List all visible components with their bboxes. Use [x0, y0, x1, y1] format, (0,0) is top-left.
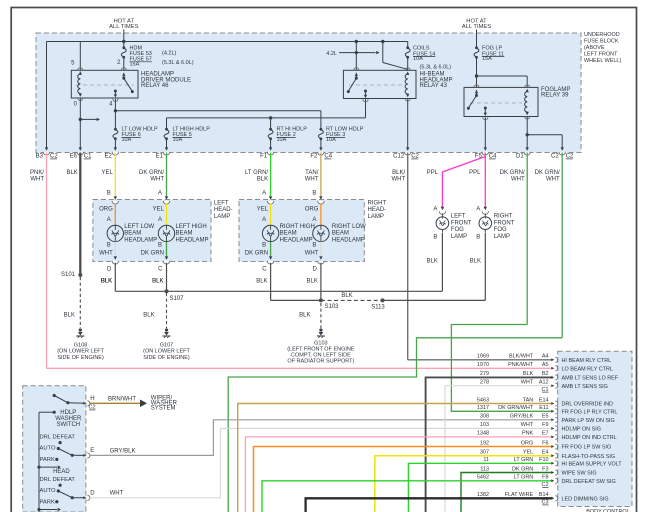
svg-text:A: A — [262, 217, 266, 223]
svg-text:C2: C2 — [551, 154, 559, 160]
svg-text:PNK: PNK — [522, 431, 534, 437]
svg-text:E1: E1 — [156, 154, 164, 160]
svg-text:RELAY 46: RELAY 46 — [141, 83, 169, 89]
svg-text:SIDE OF ENGINE): SIDE OF ENGINE) — [57, 355, 104, 361]
svg-text:10A: 10A — [326, 137, 336, 143]
svg-text:C: C — [158, 266, 163, 272]
svg-text:BLK: BLK — [143, 312, 154, 318]
svg-text:F5: F5 — [475, 154, 483, 160]
svg-text:DK GRN/: DK GRN/ — [500, 170, 525, 176]
svg-text:BLK: BLK — [64, 312, 75, 318]
svg-text:(ON LOWER LEFT: (ON LOWER LEFT — [143, 349, 190, 355]
svg-text:1970: 1970 — [477, 362, 489, 368]
svg-text:RIGHT HIGH: RIGHT HIGH — [280, 224, 315, 230]
svg-text:A: A — [312, 217, 316, 223]
svg-text:G107: G107 — [160, 342, 173, 348]
svg-text:E11: E11 — [539, 405, 548, 411]
svg-text:SWITCH: SWITCH — [56, 422, 80, 428]
svg-text:HI BEAM RLY CTRL: HI BEAM RLY CTRL — [562, 358, 612, 364]
svg-text:BLK: BLK — [257, 177, 268, 183]
svg-text:E7: E7 — [542, 431, 549, 437]
svg-text:B: B — [158, 243, 162, 249]
svg-text:A: A — [433, 206, 437, 212]
svg-text:ALL TIMES: ALL TIMES — [462, 24, 491, 30]
svg-text:PNK/WHT: PNK/WHT — [508, 362, 534, 368]
svg-text:5463: 5463 — [477, 397, 489, 403]
svg-text:LO BEAM RLY CTRL: LO BEAM RLY CTRL — [562, 367, 613, 373]
svg-text:D: D — [313, 266, 318, 272]
svg-text:COMPT, ON LEFT SIDE: COMPT, ON LEFT SIDE — [291, 353, 351, 359]
svg-text:E: E — [90, 448, 94, 454]
svg-text:BLK/: BLK/ — [392, 170, 405, 176]
svg-text:AUTO: AUTO — [40, 488, 56, 494]
svg-text:PARK: PARK — [40, 500, 55, 506]
svg-text:FR FOG LP RLY CTRL: FR FOG LP RLY CTRL — [562, 410, 618, 416]
svg-text:F3: F3 — [542, 466, 548, 472]
svg-text:LEFT: LEFT — [451, 214, 466, 220]
svg-text:F10: F10 — [539, 457, 548, 463]
svg-text:E6: E6 — [69, 154, 77, 160]
svg-text:PPL: PPL — [427, 170, 439, 176]
svg-text:11: 11 — [483, 457, 489, 463]
svg-text:F1: F1 — [260, 154, 268, 160]
svg-text:HEADLAMP: HEADLAMP — [124, 237, 157, 243]
svg-text:15A: 15A — [130, 61, 140, 67]
svg-text:AMB LT SENS LO REF: AMB LT SENS LO REF — [562, 376, 619, 382]
svg-text:FLASH-TO-PASS SIG: FLASH-TO-PASS SIG — [562, 454, 616, 460]
svg-text:DK GRN: DK GRN — [245, 250, 268, 256]
svg-text:LED DIMMING SIG: LED DIMMING SIG — [562, 497, 609, 503]
svg-text:LT GRN/: LT GRN/ — [245, 170, 268, 176]
svg-text:TAN/: TAN/ — [305, 170, 319, 176]
svg-text:A: A — [158, 217, 162, 223]
svg-text:AMB LT SENS SIG: AMB LT SENS SIG — [562, 384, 608, 390]
svg-text:WIPE SW SIG: WIPE SW SIG — [562, 471, 597, 477]
svg-text:H: H — [90, 396, 94, 402]
svg-text:DK GRN/: DK GRN/ — [535, 170, 560, 176]
svg-text:BEAM: BEAM — [124, 231, 141, 237]
svg-text:(ON LOWER LEFT: (ON LOWER LEFT — [57, 349, 104, 355]
svg-text:PARK: PARK — [40, 457, 55, 463]
svg-text:4.2L: 4.2L — [326, 51, 337, 57]
svg-text:LEFT LOW: LEFT LOW — [124, 224, 154, 230]
svg-text:307: 307 — [480, 450, 489, 456]
svg-text:BEAM: BEAM — [176, 231, 193, 237]
svg-text:D: D — [90, 491, 95, 497]
svg-text:RELAY 43: RELAY 43 — [420, 83, 448, 89]
svg-text:G108: G108 — [74, 342, 87, 348]
svg-text:BLK: BLK — [307, 279, 318, 285]
svg-text:HI BEAM SUPPLY VOLT: HI BEAM SUPPLY VOLT — [562, 462, 623, 468]
svg-text:AUTO: AUTO — [40, 446, 56, 452]
svg-text:E14: E14 — [539, 397, 549, 403]
svg-text:A: A — [262, 190, 266, 196]
svg-text:10A: 10A — [173, 137, 183, 143]
svg-text:BLK: BLK — [470, 258, 481, 264]
svg-text:G103: G103 — [314, 340, 327, 346]
svg-text:D: D — [107, 266, 112, 272]
svg-text:FLAT WIRE: FLAT WIRE — [505, 492, 534, 498]
svg-text:LEFT: LEFT — [214, 201, 229, 207]
svg-text:LAMP: LAMP — [451, 234, 467, 240]
svg-text:BLK/WHT: BLK/WHT — [509, 354, 534, 360]
svg-text:278: 278 — [480, 380, 489, 386]
svg-text:GRY/BLK: GRY/BLK — [510, 414, 534, 420]
svg-text:BLK: BLK — [299, 312, 310, 318]
svg-text:RELAY 39: RELAY 39 — [541, 93, 569, 99]
svg-text:1348: 1348 — [477, 431, 489, 437]
svg-text:192: 192 — [480, 440, 489, 446]
svg-text:DRL DEFEAT SW SIG: DRL DEFEAT SW SIG — [562, 479, 616, 485]
svg-text:PPL: PPL — [469, 170, 481, 176]
svg-text:DK GRN: DK GRN — [512, 466, 533, 472]
svg-text:1317: 1317 — [477, 405, 489, 411]
svg-text:WHT: WHT — [521, 422, 534, 428]
svg-text:HEADLAMP: HEADLAMP — [332, 237, 365, 243]
svg-text:SYSTEM: SYSTEM — [151, 406, 176, 412]
svg-text:HEAD-: HEAD- — [214, 207, 233, 213]
svg-text:WHT: WHT — [511, 177, 525, 183]
svg-text:A4: A4 — [542, 354, 549, 360]
svg-text:BEAM: BEAM — [332, 231, 349, 237]
svg-text:WHT: WHT — [521, 380, 534, 386]
svg-text:C12: C12 — [393, 154, 405, 160]
svg-text:S101: S101 — [61, 272, 76, 278]
svg-text:FR FOG LP SW SIG: FR FOG LP SW SIG — [562, 445, 612, 451]
svg-text:DK GRN/WHT: DK GRN/WHT — [498, 405, 534, 411]
svg-text:BEAM: BEAM — [280, 231, 297, 237]
svg-text:WHT: WHT — [110, 491, 124, 497]
svg-text:GRY/BLK: GRY/BLK — [110, 448, 136, 454]
svg-text:ORG: ORG — [521, 440, 533, 446]
svg-text:308: 308 — [480, 414, 489, 420]
svg-text:A5: A5 — [542, 362, 549, 368]
svg-text:15A: 15A — [482, 56, 492, 62]
svg-text:10A: 10A — [122, 137, 132, 143]
svg-text:PNK/: PNK/ — [30, 170, 44, 176]
svg-text:DK GRN: DK GRN — [141, 250, 164, 256]
svg-text:WHT: WHT — [305, 177, 319, 183]
svg-text:B: B — [262, 243, 266, 249]
svg-text:DK GRN/: DK GRN/ — [139, 170, 164, 176]
svg-text:DRL DEFEAT: DRL DEFEAT — [40, 477, 76, 483]
svg-text:YEL: YEL — [257, 207, 269, 213]
svg-text:RIGHT: RIGHT — [494, 214, 513, 220]
svg-text:B3: B3 — [36, 154, 44, 160]
svg-text:ALL TIMES: ALL TIMES — [109, 24, 138, 30]
svg-text:WHT: WHT — [546, 177, 560, 183]
svg-text:(5.3L & 6.0L): (5.3L & 6.0L) — [420, 65, 452, 71]
svg-text:LAMP: LAMP — [368, 214, 384, 220]
svg-text:S113: S113 — [371, 305, 385, 311]
svg-text:A: A — [476, 206, 480, 212]
svg-text:HDLMP ON IND CTRL: HDLMP ON IND CTRL — [562, 435, 617, 441]
svg-text:BLK: BLK — [101, 279, 112, 285]
svg-text:HEADLAMP: HEADLAMP — [280, 237, 313, 243]
svg-text:BLK: BLK — [523, 371, 534, 377]
svg-text:D1: D1 — [516, 154, 524, 160]
svg-text:1969: 1969 — [477, 354, 489, 360]
svg-text:ORG: ORG — [99, 207, 113, 213]
svg-text:B: B — [433, 234, 437, 240]
svg-text:5462: 5462 — [477, 475, 489, 481]
svg-text:UNDERHOOD: UNDERHOOD — [584, 32, 620, 38]
svg-text:113: 113 — [480, 466, 489, 472]
svg-text:HEAD: HEAD — [53, 469, 70, 475]
svg-text:10A: 10A — [413, 56, 423, 62]
svg-text:DRL OVERRIDE IND: DRL OVERRIDE IND — [562, 402, 614, 408]
svg-text:B: B — [312, 190, 316, 196]
svg-text:(LEFT FRONT OF ENGINE: (LEFT FRONT OF ENGINE — [287, 346, 355, 352]
svg-text:B: B — [107, 243, 111, 249]
svg-text:B: B — [312, 243, 316, 249]
svg-text:C: C — [262, 266, 267, 272]
svg-text:OF RADIATOR SUPPORT): OF RADIATOR SUPPORT) — [287, 359, 354, 365]
svg-text:S103: S103 — [325, 304, 340, 310]
svg-text:HEADLAMP: HEADLAMP — [176, 237, 209, 243]
svg-text:E2: E2 — [104, 154, 112, 160]
svg-text:A: A — [158, 190, 162, 196]
svg-text:YEL: YEL — [153, 207, 165, 213]
svg-text:TAN: TAN — [523, 397, 534, 403]
svg-text:YEL: YEL — [101, 170, 113, 176]
svg-text:FOG: FOG — [494, 227, 507, 233]
svg-text:LEFT FRONT: LEFT FRONT — [584, 52, 618, 58]
svg-text:WHT: WHT — [99, 250, 113, 256]
svg-text:E4: E4 — [542, 450, 549, 456]
svg-text:FRONT: FRONT — [451, 220, 472, 226]
svg-text:(5.3L & 6.0L): (5.3L & 6.0L) — [162, 60, 194, 66]
svg-text:F9: F9 — [542, 422, 548, 428]
svg-text:WHT: WHT — [392, 177, 406, 183]
svg-text:LT GRN: LT GRN — [514, 457, 534, 463]
svg-text:HDLMP ON SIG: HDLMP ON SIG — [562, 427, 601, 433]
svg-text:LT GRN: LT GRN — [514, 475, 534, 481]
svg-text:BLK: BLK — [341, 293, 352, 299]
svg-text:SIDE OF ENGINE): SIDE OF ENGINE) — [143, 355, 190, 361]
svg-text:DRL DEFEAT: DRL DEFEAT — [40, 435, 76, 441]
svg-text:RIGHT: RIGHT — [368, 201, 387, 207]
svg-text:(ABOVE: (ABOVE — [584, 45, 605, 51]
svg-text:WHT: WHT — [305, 250, 319, 256]
svg-text:1382: 1382 — [477, 492, 489, 498]
svg-text:F6: F6 — [542, 440, 548, 446]
svg-text:A12: A12 — [539, 380, 549, 386]
svg-text:LEFT HIGH: LEFT HIGH — [176, 224, 207, 230]
svg-text:BLK: BLK — [427, 258, 438, 264]
svg-text:S107: S107 — [170, 296, 185, 302]
svg-text:103: 103 — [480, 422, 489, 428]
svg-text:ORG: ORG — [305, 207, 319, 213]
svg-text:E5: E5 — [542, 414, 549, 420]
svg-text:B14: B14 — [539, 492, 549, 498]
svg-text:BLK: BLK — [66, 170, 77, 176]
svg-text:PARK LP SW ON SIG: PARK LP SW ON SIG — [562, 418, 615, 424]
svg-text:A: A — [107, 217, 111, 223]
svg-text:YEL: YEL — [523, 450, 533, 456]
svg-text:RIGHT LOW: RIGHT LOW — [332, 224, 366, 230]
svg-text:B: B — [107, 190, 111, 196]
svg-text:FRONT: FRONT — [494, 220, 515, 226]
svg-text:FUSE BLOCK: FUSE BLOCK — [584, 39, 619, 45]
svg-text:10A: 10A — [277, 137, 287, 143]
svg-text:(4.2L): (4.2L) — [162, 51, 177, 57]
svg-text:LAMP: LAMP — [494, 234, 510, 240]
svg-text:F2: F2 — [310, 154, 318, 160]
svg-text:WHT: WHT — [150, 177, 164, 183]
svg-text:WHEEL WELL): WHEEL WELL) — [584, 58, 621, 64]
svg-text:WHT: WHT — [30, 177, 44, 183]
svg-text:FOG: FOG — [451, 227, 464, 233]
svg-text:BLK: BLK — [256, 279, 267, 285]
svg-text:BLK: BLK — [152, 279, 163, 285]
svg-text:B: B — [476, 234, 480, 240]
svg-text:279: 279 — [480, 371, 489, 377]
svg-text:BRN/WHT: BRN/WHT — [108, 397, 136, 403]
svg-text:LAMP: LAMP — [214, 214, 230, 220]
svg-text:B2: B2 — [542, 371, 549, 377]
svg-text:HEAD-: HEAD- — [368, 207, 387, 213]
svg-text:F8: F8 — [542, 475, 548, 481]
